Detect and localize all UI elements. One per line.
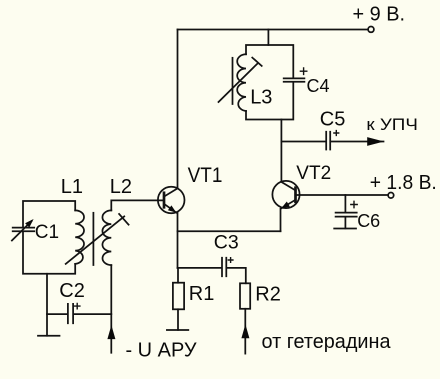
C1 arrowhead <box>25 219 33 228</box>
resistor R1 <box>173 283 184 310</box>
svg-text:R1: R1 <box>189 283 215 305</box>
svg-text:C5: C5 <box>320 109 346 131</box>
inductor L3 <box>237 54 246 111</box>
VT2 emitter arrowhead <box>281 202 290 209</box>
terminal +9V <box>368 27 374 33</box>
ground bar left <box>38 335 60 337</box>
wire C3 to R2 <box>227 268 246 283</box>
wire C5 to UPCh output <box>330 141 383 143</box>
C6 plus sign <box>351 201 357 207</box>
L1/L2 trimmer arrow <box>66 214 129 264</box>
wire VT1 emitter down <box>177 213 179 268</box>
VT1 base bar <box>163 193 166 208</box>
wire rail to L3 tank <box>267 30 269 46</box>
svg-text:L2: L2 <box>110 176 132 198</box>
svg-text:+ 1.8 В.: + 1.8 В. <box>370 172 437 194</box>
svg-text:C2: C2 <box>59 280 85 302</box>
ARU input arrowhead <box>107 325 115 339</box>
inductor L1 <box>75 210 84 264</box>
C1 variable arrow line <box>12 221 32 240</box>
L3 trimmer arrow <box>219 58 262 102</box>
capacitor C6 <box>336 213 357 217</box>
capacitor C4 <box>284 78 305 81</box>
wire tank bottom to VT2 collector <box>280 120 282 182</box>
wire C2 left <box>47 313 67 315</box>
wire VT2 base to +1.8V terminal <box>296 194 389 196</box>
left tank loop C1/L1 <box>23 201 75 274</box>
wire C6 stub <box>344 195 346 212</box>
wire C2 right <box>74 313 111 315</box>
svg-text:к УПЧ: к УПЧ <box>366 116 418 134</box>
wire L2 to VT1 base <box>111 200 163 210</box>
svg-text:C6: C6 <box>357 211 380 231</box>
C3 plus sign <box>228 258 233 263</box>
VT2 collector lead <box>281 182 295 190</box>
C4 plus sign <box>300 68 306 74</box>
capacitor C1 plates <box>13 228 35 232</box>
capacitor C5 <box>326 132 330 150</box>
VT1 collector lead <box>164 188 178 196</box>
L3 core line <box>232 58 234 104</box>
inductor L2 <box>102 210 111 265</box>
C2 plus sign <box>75 303 80 308</box>
wire R1 bottom <box>177 309 179 330</box>
VT1 emitter arrowhead <box>168 205 176 212</box>
wire C6 bottom <box>344 217 346 228</box>
VT2 base bar <box>294 188 297 202</box>
node L3/C4 tank loop <box>246 45 293 120</box>
terminal +1.8V <box>388 193 394 199</box>
wire R1 top <box>177 268 179 283</box>
wire C5 branch <box>281 141 325 143</box>
heterodyne input arrowhead <box>241 324 249 338</box>
wire R2 bottom heterodyne stub <box>244 309 246 354</box>
transistor VT2 circle <box>272 181 299 208</box>
capacitor C3 <box>222 258 226 277</box>
svg-text:C4: C4 <box>307 76 330 96</box>
wire tank bottom to ground <box>46 274 48 336</box>
capacitor C2 <box>68 304 73 323</box>
svg-text:C1: C1 <box>35 222 59 243</box>
output arrow to UPCh <box>367 137 384 146</box>
svg-text:VT2: VT2 <box>296 163 331 184</box>
svg-text:R2: R2 <box>255 284 281 306</box>
wire VT2 emitter down <box>280 209 282 231</box>
svg-text:C3: C3 <box>214 232 239 254</box>
svg-text:L3: L3 <box>250 87 272 109</box>
transistor VT1 circle <box>158 187 185 214</box>
svg-text:VT1: VT1 <box>188 163 223 187</box>
VT2 emitter lead <box>281 200 295 209</box>
wire L2 bottom stub <box>110 265 112 353</box>
VT1 emitter lead <box>164 204 176 213</box>
svg-text:от гетерадина: от гетерадина <box>262 331 392 353</box>
wire C3 branch <box>178 267 221 269</box>
svg-text:- U АРУ: - U АРУ <box>126 340 197 362</box>
resistor R2 <box>240 283 250 309</box>
C6 common bar <box>334 228 356 230</box>
wire VT1 collector vertical <box>177 30 179 189</box>
wire emitters junction <box>178 230 281 232</box>
transformer core line <box>92 213 94 265</box>
svg-text:L1: L1 <box>61 176 83 198</box>
R1 common bar <box>167 329 188 331</box>
wire top +9V rail <box>178 29 369 31</box>
svg-text:+ 9 В.: + 9 В. <box>353 4 406 26</box>
C5 plus sign <box>334 131 339 136</box>
